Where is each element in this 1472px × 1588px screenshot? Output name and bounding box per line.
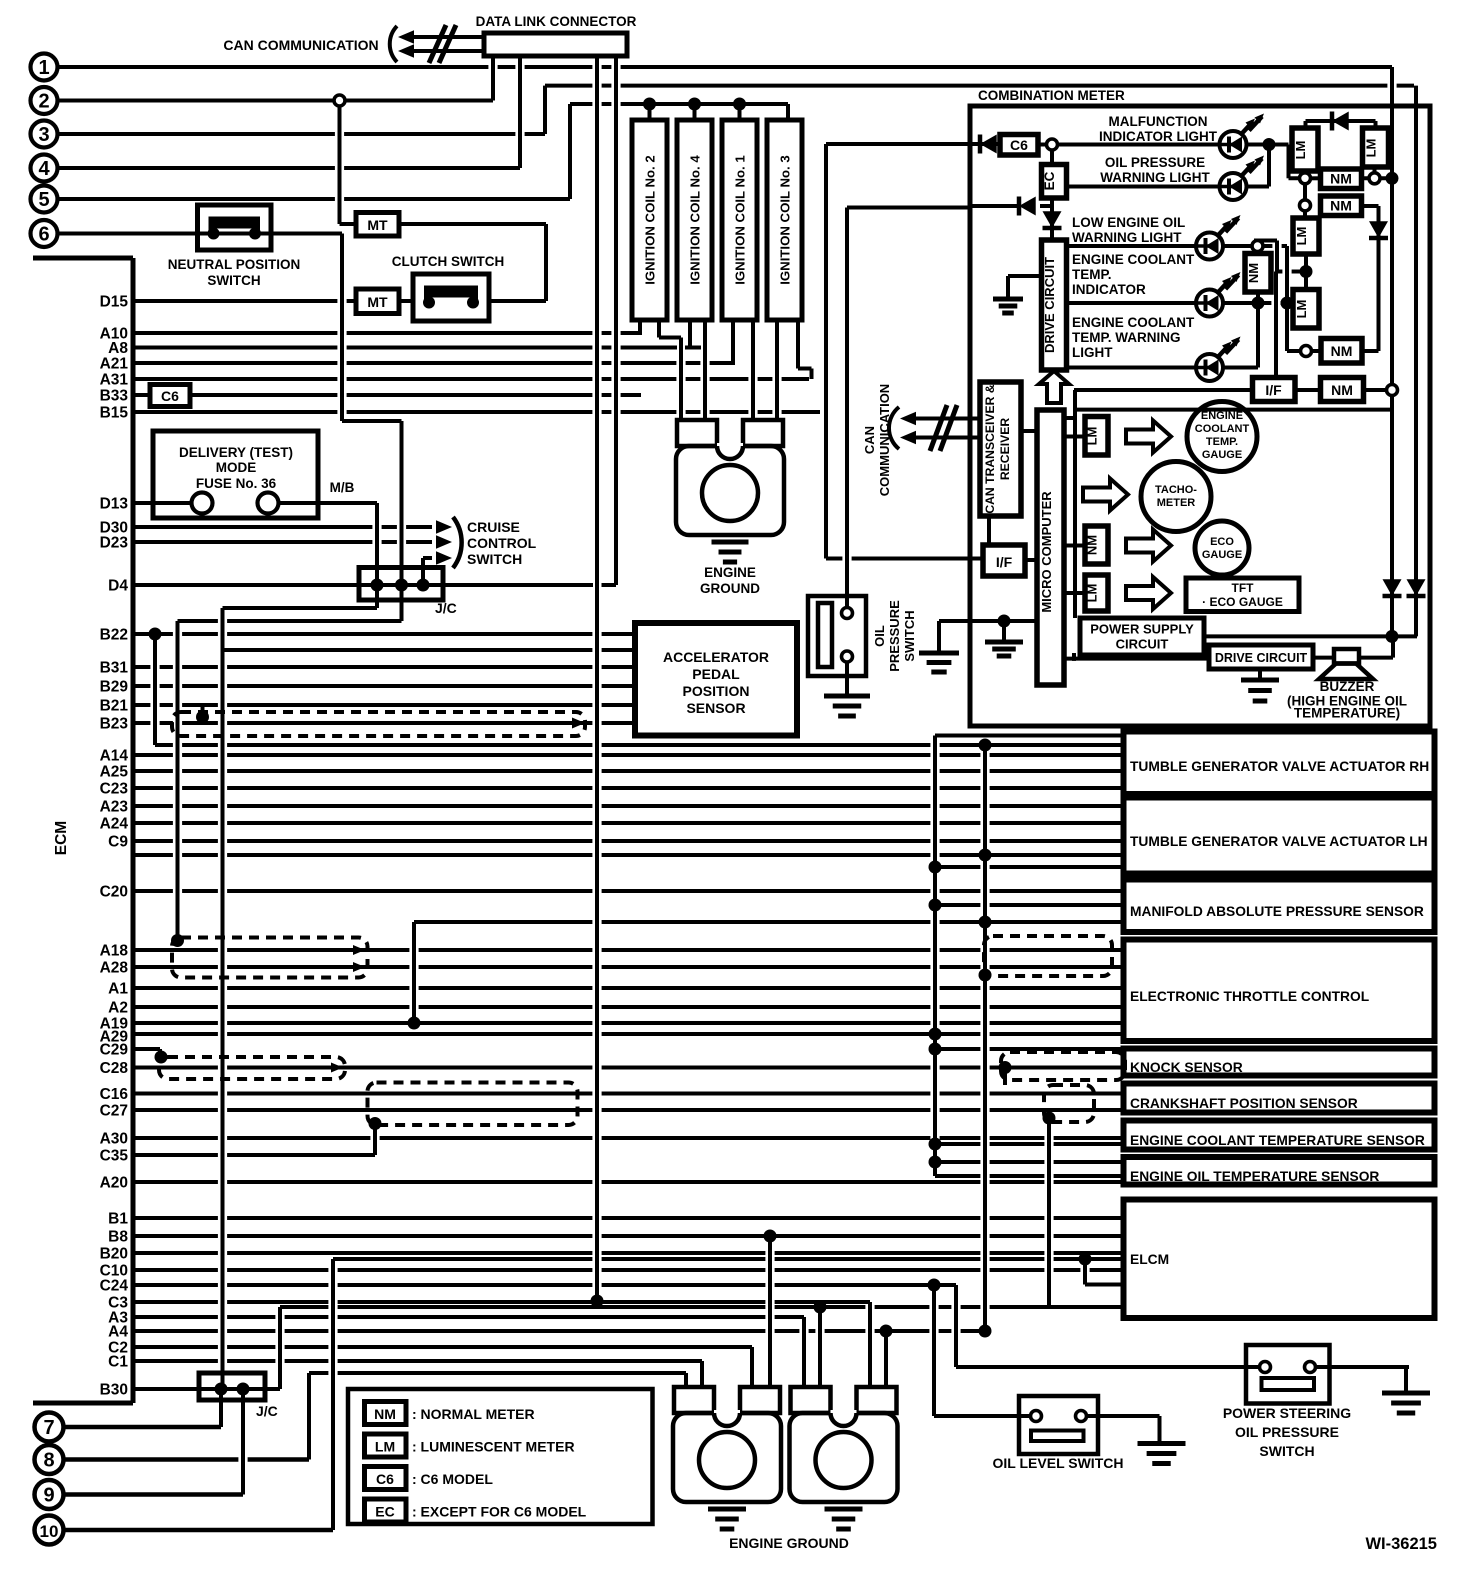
CAN arc top [390,26,397,62]
CAN arc meter [889,407,899,449]
wire node2 to LM-C [1303,205,1307,218]
node dotD [1300,265,1313,278]
node A4 EG3 [880,1325,893,1338]
wire ground E drop [1002,620,1006,643]
shield A18 A28 [172,938,368,978]
wire C3 [133,1300,870,1304]
wire LH feed row [935,865,1123,869]
wire circuit 6 jog [342,419,402,423]
wire NM2 right [1362,204,1379,208]
ignition coil no. 1 [722,120,757,320]
wire OLS right [1084,1414,1160,1418]
wire shield drain vertical [176,621,180,941]
node low oil [1252,241,1263,252]
svg-text:ENGINE COOLANT: ENGINE COOLANT [1072,252,1195,267]
svg-text:LM: LM [1294,227,1309,246]
cruise arc [453,517,462,568]
node coil feed 3 [733,98,746,111]
arrow to ECT gauge [1126,421,1171,453]
node LM-A bottom [1300,173,1311,184]
wire clutch loop riser [544,224,548,301]
node NM1 right [1369,173,1380,184]
wire circuit 6 [58,232,342,236]
svg-text:CAN TRANSCEIVER &: CAN TRANSCEIVER & [983,384,997,514]
NM box 4 [1245,254,1271,293]
shield C28 [159,1057,345,1079]
wire IF1 to MC [1025,558,1037,562]
svg-text:9: 9 [43,1485,54,1507]
wire MAP feed row [935,903,1123,907]
wire DC2 ground drop [1258,669,1262,680]
wire A29 [133,1032,1123,1036]
wire LM top run [1306,119,1376,123]
NM box 3 [1321,378,1364,402]
svg-text:IGNITION COIL No. 3: IGNITION COIL No. 3 [778,155,793,284]
svg-text:B33: B33 [100,388,129,405]
ground F oil level [1138,1444,1186,1464]
svg-text:PRESSURE: PRESSURE [887,600,902,672]
svg-text:C24: C24 [100,1278,129,1295]
svg-text:4: 4 [38,158,50,180]
wire B33 [133,393,150,397]
svg-text:C29: C29 [100,1042,129,1059]
ignition coil no. 4 [677,120,712,320]
svg-text:IGNITION COIL No. 2: IGNITION COIL No. 2 [643,155,658,284]
wire coil3 left pin [775,318,779,420]
svg-text:TEMP.: TEMP. [1072,267,1112,282]
wire buzzer riser [1391,636,1395,657]
node NM4 bottom [1252,297,1265,310]
I/F box 2 [1253,378,1296,402]
shield A18 arrow [353,945,365,972]
node coil feed 1 [643,98,656,111]
tumble generator valve actuator LH box [1124,798,1435,874]
wire circuit 10 [64,1528,333,1533]
svg-text:MANIFOLD ABSOLUTE PRESSURE SEN: MANIFOLD ABSOLUTE PRESSURE SENSOR [1130,904,1424,919]
svg-text:TUMBLE GENERATOR VALVE ACTUATO: TUMBLE GENERATOR VALVE ACTUATOR RH [1130,759,1429,774]
CAN transceiver receiver box [980,382,1021,516]
wire B29 [133,684,635,688]
wire cluster MC stub [1064,416,1075,420]
svg-text:LM: LM [1293,141,1308,160]
svg-text:C9: C9 [108,834,128,851]
wire MC to DC2 [1064,657,1209,661]
node C24 oil level [928,1279,941,1292]
wire J/C dot2 drop [400,585,404,621]
svg-text:2: 2 [38,91,49,113]
ELCM box [1124,1200,1435,1319]
svg-text:A30: A30 [100,1131,128,1148]
wire coil2 jog [659,336,681,340]
ground G power steering [1382,1393,1430,1413]
svg-text:C28: C28 [100,1060,129,1077]
wire A21 [133,361,735,365]
wire IF2 row left [1074,388,1253,392]
wire node1 to NM1 [1305,176,1321,180]
engine ground 1 symbol [712,542,749,562]
svg-text:C16: C16 [100,1086,129,1103]
wire ECT warn LED left [1066,366,1196,370]
wire D15 to clutch [399,299,413,303]
wire A8 [133,346,677,350]
svg-text:OIL LEVEL SWITCH: OIL LEVEL SWITCH [993,1455,1124,1471]
wire chain B [983,745,987,1331]
wire A14 [133,753,1123,757]
wire A28 [133,965,1123,969]
CAN slash marks meter [930,405,957,451]
svg-text:EC: EC [1042,171,1057,190]
wire OP LED right [1247,185,1270,189]
svg-text:WARNING LIGHT: WARNING LIGHT [1072,230,1182,245]
svg-text:GAUGE: GAUGE [1202,449,1242,461]
svg-text:J/C: J/C [256,1403,278,1419]
svg-text:8: 8 [43,1450,54,1472]
drive circuit 1 box [1042,240,1067,370]
drive circuit 2 box [1209,645,1313,669]
wire A24 [133,821,1123,825]
CAN arrow m2 [900,431,916,444]
wire DC1 ground drop [1006,276,1010,299]
data link connector [484,33,627,56]
wire circuit 10 row [333,1257,1123,1261]
wire D13 [133,501,153,505]
wire coil2 right pin [657,318,661,338]
wire circuit 5 riser [568,104,572,199]
wire circuit 5 [58,197,570,201]
diode Dv2 [1407,579,1426,596]
svg-text:C6: C6 [1010,137,1028,153]
wire cruise 3 stub [423,556,432,560]
wire EC feed vertical [845,208,849,609]
wire row922 drop [412,922,416,1023]
LED malfunction indicator [1220,114,1265,159]
svg-text:ENGINE OIL TEMPERATURE SENSOR: ENGINE OIL TEMPERATURE SENSOR [1130,1169,1379,1184]
LED engine coolant temp warning [1196,337,1241,382]
wire B31 [133,665,635,669]
wire circuit 6 drop [340,234,344,422]
svg-text:METER: METER [1157,497,1196,509]
wire D15 [133,299,356,303]
neutral position switch label [168,257,301,288]
wire LM-C to LM-D [1304,254,1308,290]
wire PS corner stub [1072,653,1076,661]
legend NM [365,1402,535,1425]
engine ground 2 symbol [708,1509,746,1529]
wire A1 [133,986,1123,990]
wire B30 riser row [280,1305,1123,1309]
ECM pin labels [100,294,129,1399]
svg-text:B30: B30 [100,1382,128,1399]
svg-text:INDICATOR: INDICATOR [1072,282,1146,297]
wire CAN t1 [412,35,484,39]
wire B33 cont [190,393,641,397]
crankshaft position sensor box [1124,1084,1435,1113]
legend C6 [365,1467,494,1490]
arrow to eco gauge [1126,530,1171,562]
node chain A 1 [929,861,942,874]
arrow drive [1039,371,1069,403]
clutch switch [413,274,489,321]
wire B22 branch row [155,743,1123,747]
svg-text:NM: NM [1330,171,1352,187]
wire coil4 left pin [688,318,692,348]
svg-text:D4: D4 [108,578,128,595]
svg-text:DELIVERY (TEST): DELIVERY (TEST) [179,445,293,460]
wire A20 [133,1180,1123,1184]
wire MIL to dot [1247,143,1289,147]
svg-text:ECM: ECM [53,821,70,855]
wire C2 [133,1345,752,1349]
engine ground 1 label [700,565,760,596]
wire knock feed row [935,1047,1123,1051]
wire D4 to DLC [602,583,617,587]
ignition coil no. 3 [767,120,802,320]
wire circuit 3 upper run [545,84,1414,88]
wire circuit 7 [64,1425,221,1430]
wire EC feed top [847,206,970,210]
wire long vertical to J/C2 [221,608,225,1389]
diode Da [980,135,997,154]
ground A oil pressure switch [824,696,870,716]
svg-text:A14: A14 [100,748,129,765]
wire circuit 8 [64,1457,309,1462]
wire to node1 [1289,176,1306,180]
engine ground 2 lug [673,1387,781,1502]
ignition coil no. 2 [632,120,667,320]
wire buzzer to column [1359,656,1393,660]
svg-text:ELCM: ELCM [1130,1252,1169,1267]
shield B23 arrow [572,718,585,729]
svg-text:D15: D15 [100,294,129,311]
svg-text:: EXCEPT FOR C6 MODEL: : EXCEPT FOR C6 MODEL [412,1504,587,1520]
wire circuit 8 riser [307,1373,311,1460]
engine coolant temperature sensor box [1124,1121,1435,1150]
low engine oil warning light label [1072,215,1185,245]
svg-text:A4: A4 [108,1324,128,1341]
wire C6 feed vertical [824,144,828,559]
svg-text:LOW ENGINE OIL: LOW ENGINE OIL [1072,215,1185,230]
LM box H [1085,575,1109,611]
svg-text:LM: LM [1085,427,1100,446]
svg-text:ELECTRONIC THROTTLE CONTROL: ELECTRONIC THROTTLE CONTROL [1130,989,1369,1004]
LM box G [1085,417,1109,456]
wire right column A [1390,67,1394,637]
svg-text:SWITCH: SWITCH [902,610,917,661]
wire PS right [1313,1365,1409,1369]
node chain B 2 [979,849,992,862]
node J/C2 dot1 [215,1383,228,1396]
wire EG3 feed 2 [818,1307,822,1387]
wire OPS ground [845,661,849,696]
wire node2 to MT box [340,222,357,226]
svg-text:TFT: TFT [1232,581,1255,595]
oil level switch [1019,1396,1098,1454]
wire coil2 left pin [638,318,642,333]
wire nodeA to riser [1258,244,1288,248]
svg-text:RECEIVER: RECEIVER [998,418,1012,481]
engine coolant temp warning label [1072,315,1195,360]
wire coil stub 2 [693,104,697,120]
wire coil3 right pin [796,318,800,369]
svg-text:NM: NM [374,1406,396,1422]
TFT eco gauge box [1186,578,1299,612]
cruise arrow 1 [436,520,452,533]
wire NM3 to node [1364,388,1393,392]
svg-text:· ECO GAUGE: · ECO GAUGE [1202,595,1283,609]
node power supply junction [1386,630,1399,643]
svg-text:A20: A20 [100,1175,128,1192]
wire dotD row [1277,270,1306,274]
wire A2 [133,1005,1123,1009]
svg-text:IGNITION COIL No. 1: IGNITION COIL No. 1 [733,155,748,284]
svg-text:D13: D13 [100,496,129,513]
ground drive circuit 1 [993,299,1023,313]
wire DC1 ground link [1008,274,1042,278]
neutral position switch [198,205,272,250]
CAN communication label meter [862,384,892,496]
svg-text:3: 3 [38,124,49,146]
node shield ETC drain [979,969,992,982]
wire C35 riser [373,1124,377,1156]
svg-text:LIGHT: LIGHT [1072,345,1113,360]
node ELCM feed [1079,1253,1092,1266]
LED low engine oil [1196,215,1241,260]
MT box 2 [356,289,399,314]
svg-text:NEUTRAL POSITION: NEUTRAL POSITION [168,257,301,272]
svg-text:NM: NM [1330,198,1352,214]
diode Dd [1332,112,1349,131]
wire NM4 bottom link [1256,292,1260,303]
wire OP LED right riser [1267,145,1271,187]
svg-text:B29: B29 [100,679,129,696]
svg-text:EC: EC [375,1504,394,1520]
junction connector J/C 2 [199,1373,265,1400]
svg-text:B8: B8 [108,1229,128,1246]
svg-text:10: 10 [40,1522,59,1541]
wire ELCM branch [1085,1283,1123,1287]
svg-text:A8: A8 [108,340,128,357]
svg-text:J/C: J/C [435,600,457,616]
wire cluster top edge [1074,408,1392,412]
node meter ground [998,615,1011,628]
C6 model box meter [1000,135,1038,156]
svg-text:B31: B31 [100,660,129,677]
svg-text:C1: C1 [108,1354,128,1371]
node column A junction1 [1386,172,1399,185]
wire EG3 feed 1 [802,1317,806,1387]
wire C28 [133,1066,1123,1070]
wire M/B drop [375,503,379,585]
wire dotD hook riser [1275,241,1279,272]
wire C23 [133,786,1123,790]
engine ground 1 lug [676,420,784,535]
node circuit 8 [35,1445,64,1474]
svg-text:DATA LINK CONNECTOR: DATA LINK CONNECTOR [476,14,637,29]
svg-text:MODE: MODE [216,460,257,475]
wire LM-A bottom [1303,171,1307,205]
junction connector J/C [359,568,443,601]
wire C20 [133,889,1123,893]
svg-text:I/F: I/F [996,554,1013,570]
svg-text:5: 5 [38,189,49,211]
node circuit 3 [31,121,58,148]
wire meter EC row [970,204,1019,208]
svg-text:CRUISE: CRUISE [467,519,520,535]
shield knock right [1001,1052,1125,1080]
wire low oil LED left [1066,244,1196,248]
wire circuit 2 [58,99,493,103]
wire EG2 feed 3 [750,1347,754,1387]
wire EOT feed row 2 [935,1174,1123,1178]
wire OLS ground drop [1158,1416,1162,1444]
svg-text:CAN COMMUNICATION: CAN COMMUNICATION [223,37,378,53]
wire B21 [133,703,635,707]
node chain A 4 [929,1043,942,1056]
wire sensor row 650 [223,648,636,652]
diode Dv1 [1383,579,1402,596]
svg-text:ENGINE: ENGINE [1201,410,1243,422]
svg-text:NM: NM [1085,535,1100,555]
wire coil1 left pin [731,318,735,363]
wire CAN m2 [914,436,982,440]
node circuit 7 [35,1413,64,1442]
diode Db [1043,211,1062,228]
wire cruise 3 drop [421,558,425,585]
svg-text:DRIVE CIRCUIT: DRIVE CIRCUIT [1042,257,1057,353]
node circuit 9 [35,1480,64,1509]
wire PS left [956,1365,1261,1369]
svg-text:B22: B22 [100,627,128,644]
diode Dc [1019,197,1036,216]
wire B30 [133,1387,280,1391]
node shield crank drain [1043,1112,1056,1125]
node LM chain [1300,200,1311,211]
wire A3 [133,1315,804,1319]
svg-text:C35: C35 [100,1148,129,1165]
wire A31 [133,377,809,381]
wire IF feed [826,557,983,561]
wire CTR to IF1 [987,516,991,545]
CAN arrow m1 [900,412,916,425]
wire C29 drop [158,1049,162,1057]
svg-text:KNOCK SENSOR: KNOCK SENSOR [1130,1060,1243,1075]
wire NM4 top link [1256,246,1260,254]
wire NM5 right [1362,349,1379,353]
node chain B 4 [979,1325,992,1338]
wire coil3 jog [798,367,812,371]
wire D23 [133,540,432,544]
node chain B 3 [979,916,992,929]
power steering oil pressure switch label [1223,1405,1351,1459]
svg-text:OIL PRESSURE: OIL PRESSURE [1105,155,1205,170]
svg-text:D23: D23 [100,535,129,552]
wire coil2 ground drop [679,338,683,421]
svg-text:MT: MT [367,217,388,233]
svg-text:SWITCH: SWITCH [1259,1443,1314,1459]
node B22 branch [149,628,162,641]
wire MC to NM-G [1064,544,1085,548]
wire B20 [133,1251,1123,1255]
svg-text:SWITCH: SWITCH [207,273,260,288]
svg-text:OIL PRESSURE: OIL PRESSURE [1235,1424,1339,1440]
wire B30 riser [278,1307,282,1389]
svg-text:B20: B20 [100,1246,128,1263]
wire ECT feed row [935,1142,1123,1146]
LM box B [1363,128,1389,167]
ground B sensor [919,653,959,672]
node chain A 3 [929,1028,942,1041]
wire coil stub 1 [648,104,652,120]
